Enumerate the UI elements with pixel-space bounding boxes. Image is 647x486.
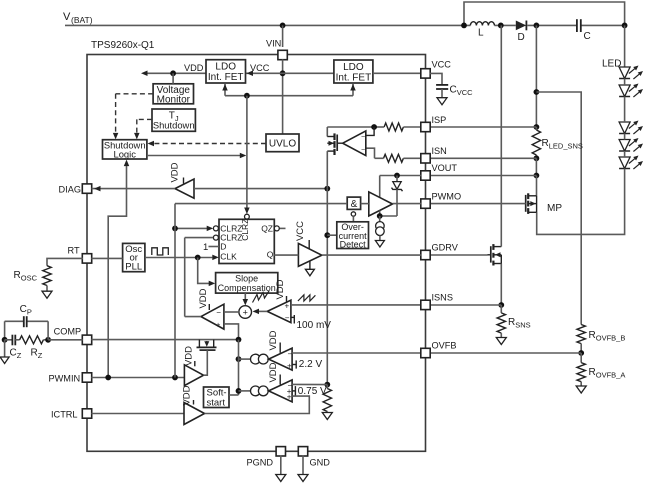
label VCC near LDO: [250, 63, 270, 73]
Osc or PLL box: [123, 243, 145, 272]
wire 2.2V comp minus to OVFB: [292, 352, 421, 354]
svg-text:Int. FET: Int. FET: [336, 72, 372, 83]
comparator U-0.75V clamp: [268, 362, 293, 402]
wire 0.75 clamp minus: [292, 383, 327, 385]
svg-text:Detect: Detect: [340, 240, 367, 250]
wire DIAG output: [92, 186, 176, 192]
pin GND: [298, 447, 330, 468]
node COMP junction: [236, 337, 242, 343]
wire driver bottom rail: [380, 211, 397, 217]
wire slope comp to summer: [243, 293, 249, 305]
UVLO box: [266, 134, 299, 152]
svg-text:PWMO: PWMO: [432, 192, 462, 202]
svg-text:D: D: [518, 32, 525, 43]
Over-current Detect box: [337, 222, 369, 250]
svg-text:PGND: PGND: [247, 458, 274, 468]
current source I-clamp2: [239, 386, 269, 396]
inductor L: [470, 22, 494, 39]
diode D: [516, 21, 527, 44]
capacitor CVCC: [430, 73, 473, 104]
svg-text:VDD: VDD: [275, 279, 286, 299]
Slope Compensation box: [216, 273, 278, 294]
wire AND to overcurrent: [352, 216, 354, 222]
pin DIAG: [59, 184, 92, 195]
arrow into LDO1 VCC input: [247, 71, 254, 77]
LED D4: [619, 138, 643, 152]
svg-text:+: +: [287, 361, 292, 370]
wire vertical COMP bus: [238, 340, 240, 395]
svg-text:Q: Q: [267, 249, 274, 259]
label 2.2 V reference: [292, 359, 322, 370]
node VIN-VCC junction: [280, 70, 286, 76]
svg-text:ISNS: ISNS: [432, 293, 453, 303]
capacitor C: [577, 19, 591, 42]
svg-text:V: V: [63, 11, 71, 23]
current source I-clamp1: [239, 354, 269, 364]
resistor R-sense to ground: [322, 385, 332, 420]
wire ISN internal: [366, 148, 421, 162]
ground arrow GND: [298, 456, 308, 482]
svg-text:Int. FET: Int. FET: [208, 72, 244, 83]
svg-text:&: &: [351, 199, 358, 210]
ground arrow compensation: [0, 340, 9, 364]
LED D3: [619, 121, 643, 135]
dashed wire TJ Shutdown to Shutdown Logic: [134, 119, 152, 139]
LED D2: [619, 84, 643, 98]
resistor ROVFB_B: [577, 325, 625, 344]
wire VOUT external: [430, 175, 537, 177]
svg-text:QZ: QZ: [261, 224, 273, 234]
label 0.75 V reference: [292, 386, 327, 397]
wire sense current line: [326, 189, 328, 385]
AND gate: [347, 197, 360, 210]
svg-text:+: +: [243, 307, 248, 317]
svg-text:COMP: COMP: [54, 327, 82, 337]
pin RT: [68, 246, 92, 264]
wire error comp plus input: [224, 324, 239, 340]
svg-text:VOUT: VOUT: [432, 163, 458, 173]
wire COMP to pin: [48, 339, 83, 341]
svg-text:+: +: [216, 321, 221, 330]
svg-text:+: +: [285, 302, 290, 311]
svg-text:VDD: VDD: [182, 385, 193, 405]
node OV sense junction: [534, 89, 540, 95]
wire VDD line: [141, 71, 206, 77]
svg-text:VIN: VIN: [266, 39, 281, 49]
svg-text:C: C: [584, 31, 591, 42]
svg-text:Compensation: Compensation: [218, 283, 276, 293]
node ISP amp junction: [371, 124, 377, 130]
LED D5: [619, 156, 643, 170]
flip-flop U-FF: [219, 219, 274, 264]
wire CLRZ1 input: [175, 226, 213, 232]
node CLK junction: [195, 255, 201, 261]
wire COMP internal: [91, 339, 238, 341]
wire GDRV to Q1 gate: [430, 254, 488, 256]
svg-text:VCC: VCC: [250, 63, 270, 73]
svg-text:LDO: LDO: [215, 62, 236, 73]
net V(BAT) label: [63, 11, 93, 25]
label TPS9260x-Q1: [91, 40, 155, 51]
svg-text:ICTRL: ICTRL: [51, 410, 78, 420]
dashed wire Voltage Monitor to Shutdown Logic: [113, 94, 153, 140]
AND gate inverter bubble: [351, 212, 355, 216]
svg-text:−: −: [361, 134, 365, 141]
svg-text:TPS9260x-Q1: TPS9260x-Q1: [91, 40, 155, 51]
svg-text:CLK: CLK: [220, 251, 237, 261]
wire Osc to CLK: [145, 257, 213, 259]
node ISNS junction: [498, 302, 504, 308]
node PWMIN shutdown junction: [105, 375, 111, 381]
pin ICTRL: [51, 409, 92, 420]
net LED label: [602, 59, 621, 70]
svg-text:DIAG: DIAG: [59, 185, 81, 195]
svg-text:ISN: ISN: [432, 146, 447, 156]
wire ISNS to comparator: [291, 304, 421, 306]
node switch node junction: [498, 23, 504, 29]
svg-text:PLL: PLL: [125, 261, 142, 272]
svg-text:L: L: [478, 28, 484, 39]
svg-text:UVLO: UVLO: [269, 139, 296, 150]
wire ISNS external: [430, 304, 502, 306]
node CLRZ1 junction: [172, 226, 178, 232]
wire top return loop: [464, 2, 625, 25]
Soft-start box: [204, 387, 230, 408]
svg-text:Monitor: Monitor: [157, 94, 191, 105]
pin VCC: [421, 60, 451, 79]
resistor RSNS: [497, 305, 531, 333]
buffer U-GDRV: [295, 221, 322, 276]
node driver gnd junction: [377, 213, 383, 219]
svg-text:PWMIN: PWMIN: [49, 374, 81, 384]
pin VIN: [266, 39, 287, 60]
svg-text:2.2 V: 2.2 V: [299, 359, 323, 370]
pin ISNS: [421, 293, 453, 310]
svg-text:VDD: VDD: [198, 288, 209, 308]
pin PWMIN: [49, 373, 92, 384]
resistor RLED_SNS: [532, 127, 583, 158]
wire ROVFB_B to OVFB node: [580, 344, 582, 353]
Voltage Monitor box: [153, 84, 193, 106]
FF CLRZ top bubble: [245, 214, 250, 219]
wire PWMO to MP gate: [430, 203, 526, 205]
buffer U-PWMIN: [184, 346, 204, 386]
wire soft-start output: [229, 394, 239, 396]
wire VCC to pin: [373, 72, 421, 74]
buffer U-DIAG: [170, 162, 195, 198]
transistor M-CS sense PMOS: [327, 127, 342, 189]
wire VDD to Voltage Monitor: [172, 73, 174, 84]
capacitor CZ: [5, 335, 22, 360]
pin PWMO: [421, 192, 461, 209]
wire Q output: [274, 254, 298, 256]
label D input constant 1: [203, 242, 219, 253]
LDO1 Int FET box: [206, 60, 246, 83]
pin OVFB: [421, 341, 457, 358]
svg-text:MP: MP: [547, 203, 562, 214]
ground arrow below ROVFB_A: [576, 382, 586, 393]
FF input bubbles: [213, 226, 218, 240]
wire VOUT internal: [380, 176, 422, 198]
node boost input junction: [461, 23, 467, 29]
node diode cathode junction: [534, 23, 540, 29]
label 100 mV offset: [291, 315, 331, 331]
capacitor CP: [5, 304, 49, 327]
TJ Shutdown box: [152, 109, 195, 131]
wire summer to error comp: [224, 311, 239, 313]
Shutdown Logic box: [103, 140, 147, 160]
wire OV sense branch: [536, 92, 581, 325]
transistor Q1 boost FET: [488, 25, 502, 265]
wire boost output riser: [535, 25, 537, 127]
svg-text:start: start: [207, 397, 226, 408]
pin ISP: [421, 115, 447, 132]
svg-text:CLRZ: CLRZ: [240, 219, 250, 241]
node zener junction top: [394, 173, 400, 179]
sawtooth symbol: [253, 291, 270, 303]
node VDD junction: [170, 70, 176, 76]
node clamp2 junction: [236, 388, 242, 394]
wire VOUT node to MP source: [536, 176, 538, 196]
pin COMP: [54, 327, 92, 345]
wire overcurrent tap: [327, 234, 337, 236]
resistor RZ: [15, 336, 48, 360]
svg-text:LED: LED: [602, 59, 621, 70]
svg-text:VDD: VDD: [184, 346, 195, 366]
pin ISN: [421, 146, 447, 163]
svg-text:VCC: VCC: [295, 221, 306, 241]
wire ISN external: [430, 157, 537, 159]
label VDD: [184, 63, 204, 73]
wire LDO feed rail: [222, 84, 356, 96]
driver U-PWMO: [369, 192, 393, 216]
svg-text:−: −: [216, 308, 221, 317]
comparator U-2.2V clamp: [268, 330, 293, 370]
wire LED string cathode to MP drain: [537, 169, 625, 235]
wire ISP internal: [327, 123, 421, 131]
svg-text:+: +: [287, 393, 292, 402]
node compensation gnd junction: [2, 337, 8, 343]
svg-text:Shutdown: Shutdown: [153, 120, 195, 131]
pin VOUT: [421, 163, 458, 180]
wire ISN to VOUT node: [535, 158, 537, 175]
ramp symbol: [298, 295, 316, 301]
wire ICTRL route: [205, 396, 310, 413]
svg-text:VDD: VDD: [170, 162, 181, 182]
svg-text:(BAT): (BAT): [71, 15, 93, 25]
node LDO feed junction: [244, 93, 250, 99]
svg-text:ISP: ISP: [432, 115, 447, 125]
wire DIAG buffer input: [194, 188, 327, 190]
node DIAG sense junction: [324, 186, 330, 192]
zener D-clamp: [392, 176, 403, 217]
svg-text:−: −: [288, 350, 293, 359]
svg-text:OVFB: OVFB: [432, 341, 457, 351]
transistor MP: [526, 193, 563, 214]
ground arrow PGND: [276, 456, 286, 482]
svg-text:100 mV: 100 mV: [297, 320, 332, 331]
LDO2 Int FET box: [334, 60, 373, 83]
transistor M-COMP clamp: [197, 340, 217, 351]
wire Shutdown Logic output: [147, 153, 246, 159]
resistor ROSC: [14, 258, 84, 298]
svg-text:1: 1: [203, 242, 208, 253]
buffer U-ICTRL: [182, 385, 205, 424]
wire CLRZ2 input: [185, 238, 214, 317]
comparator U-PWM error: [198, 288, 224, 329]
svg-text:VDD: VDD: [268, 330, 279, 350]
wire ISP external: [430, 126, 537, 128]
wire Cp left leg: [4, 321, 6, 340]
svg-text:VDD: VDD: [268, 362, 279, 382]
wire 100mV comp output: [253, 309, 268, 315]
node PWMIN route junction: [172, 375, 178, 381]
node COMP network junction: [45, 321, 51, 342]
svg-text:−: −: [361, 147, 365, 154]
node OVFB junction: [578, 350, 584, 356]
wire FF async clear drop: [244, 96, 250, 214]
wire GDRV internal: [322, 254, 421, 256]
wire PWM route: [175, 203, 369, 205]
node ISP junction: [534, 124, 540, 130]
QZ stub: [274, 226, 285, 231]
wire Q1 source to ISNS node: [500, 264, 502, 306]
svg-text:D: D: [220, 242, 226, 252]
svg-text:Logic: Logic: [113, 149, 136, 160]
wire ICTRL internal: [91, 413, 184, 415]
node VOUT junction: [534, 173, 540, 179]
node LED string top junction: [622, 23, 628, 29]
wire PWMO internal: [393, 203, 422, 205]
svg-text:GND: GND: [310, 458, 331, 468]
wire CLK input: [212, 255, 219, 261]
node ISN junction: [534, 155, 540, 161]
pin PGND: [247, 447, 286, 468]
wire error comp output to CLRZ2: [185, 316, 201, 318]
svg-text:GDRV: GDRV: [432, 243, 459, 253]
clock waveform symbol: [152, 248, 169, 255]
pin GDRV: [421, 243, 459, 260]
current source I-PWMO: [375, 216, 384, 247]
wire RT to Osc: [91, 257, 122, 259]
node clamp1 junction: [236, 356, 242, 362]
ground arrow below RSNS: [496, 333, 506, 344]
wire PWMIN riser: [174, 204, 176, 378]
LED D1: [619, 66, 643, 80]
node sense resistor junction: [324, 382, 330, 388]
wire Shutdown riser from PWMIN: [108, 160, 129, 378]
wire CLK to slope comp: [198, 258, 216, 287]
node overcurrent tap junction: [324, 232, 330, 238]
wire VIN internal: [282, 59, 284, 134]
node V(BAT)-VIN junction: [280, 23, 286, 29]
svg-text:RT: RT: [68, 246, 80, 256]
svg-text:VDD: VDD: [184, 63, 204, 73]
dashed wire UVLO to Shutdown Logic: [148, 141, 267, 147]
wire OVFB external: [430, 352, 581, 354]
svg-text:VCC: VCC: [432, 60, 452, 70]
summer node: [239, 306, 252, 319]
wire VCC line LDO1 to LDO2: [246, 72, 334, 74]
wire PWMIN internal: [91, 377, 184, 379]
op-amp U-CS current sense: [343, 127, 374, 156]
wire LED string anode: [624, 25, 626, 67]
resistor ROVFB_A: [577, 353, 625, 382]
wire PWMIN buffer to clamp gate: [204, 350, 208, 375]
wire LED string segments: [624, 79, 626, 158]
wire V(BAT) rail: [65, 24, 625, 26]
wire VIN drop: [282, 25, 284, 47]
comparator U-100mV: [267, 279, 291, 322]
IC boundary TPS9260x-Q1: [87, 55, 426, 452]
svg-text:−: −: [285, 313, 290, 322]
